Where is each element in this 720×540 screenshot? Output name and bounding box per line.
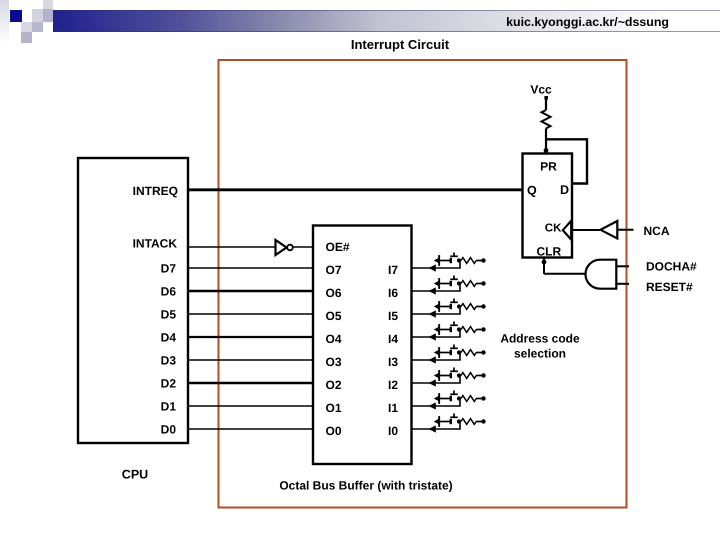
svg-text:O1: O1 xyxy=(326,401,342,415)
wire resistor to terminal row I2 xyxy=(476,375,482,377)
svg-text:CLR: CLR xyxy=(537,245,562,259)
terminal dot row I3 xyxy=(481,350,485,354)
resistor row I3 xyxy=(461,350,476,356)
wire D6 xyxy=(189,290,313,292)
switch S7 contact xyxy=(450,258,452,263)
switch S0 terminal arrow and bar xyxy=(434,418,440,425)
svg-text:O2: O2 xyxy=(326,378,342,392)
svg-text:D: D xyxy=(560,183,569,197)
wire D1 xyxy=(189,405,313,407)
switch S5 terminal arrow and bar xyxy=(434,303,440,310)
dark navy square xyxy=(10,10,22,22)
svg-text:RESET#: RESET# xyxy=(646,280,693,294)
wire CLR to AND gate output xyxy=(544,273,586,275)
junction dot row I7 xyxy=(457,258,461,262)
wire resistor to terminal row I6 xyxy=(476,283,482,285)
resistor row I5 xyxy=(461,304,476,310)
resistor row I1 xyxy=(461,396,476,402)
switch S3 button xyxy=(450,347,458,349)
switch S6 pole wire xyxy=(440,283,450,285)
svg-text:O3: O3 xyxy=(326,355,342,369)
junction dot row I2 xyxy=(457,373,461,377)
resistor row I2 xyxy=(461,373,476,379)
wire resistor to PR pin xyxy=(545,128,547,154)
switch S7 button xyxy=(450,255,458,257)
wire buffer input I0 xyxy=(412,422,460,430)
junction dot row I6 xyxy=(457,281,461,285)
svg-text:DOCHA#: DOCHA# xyxy=(646,260,697,274)
terminal dot row I7 xyxy=(481,258,485,262)
svg-text:INTREQ: INTREQ xyxy=(133,184,178,198)
svg-text:I6: I6 xyxy=(388,286,398,300)
svg-text:D5: D5 xyxy=(161,307,177,321)
switch S1 terminal arrow and bar xyxy=(434,395,440,402)
header url text xyxy=(0,15,669,29)
switch S2 terminal arrow and bar xyxy=(434,372,440,379)
junction dot row I3 xyxy=(457,350,461,354)
svg-text:NCA: NCA xyxy=(644,224,670,238)
terminal dot row I4 xyxy=(481,327,485,331)
medium square mid row xyxy=(32,22,43,32)
switch S1 button xyxy=(450,393,458,395)
switch S1 pole wire xyxy=(440,398,450,400)
switch S2 pole wire xyxy=(440,375,450,377)
junction dot at CLR xyxy=(542,260,547,265)
junction dot row I0 xyxy=(457,419,461,423)
switch S3 terminal arrow and bar xyxy=(434,349,440,356)
switch S4 pole wire xyxy=(440,329,450,331)
svg-text:I2: I2 xyxy=(388,378,398,392)
junction dot row I5 xyxy=(457,304,461,308)
header decorative mosaic and gradient bar xyxy=(0,0,720,50)
wire resistor to terminal row I5 xyxy=(476,306,482,308)
svg-text:D7: D7 xyxy=(161,261,177,275)
wire resistor to terminal row I3 xyxy=(476,352,482,354)
svg-text:D6: D6 xyxy=(161,284,177,298)
switch S3 contact xyxy=(450,350,452,355)
wire buffer input I7 xyxy=(412,261,460,269)
clock input wedge xyxy=(563,221,571,240)
svg-text:D4: D4 xyxy=(161,330,177,344)
wire D0 xyxy=(189,428,313,430)
wire INTREQ (CPU to flip-flop Q) xyxy=(189,188,522,191)
flip-flop U1 box xyxy=(523,154,573,258)
wire buffer input I5 xyxy=(412,307,460,315)
switch S0 contact xyxy=(450,419,452,424)
inverter U4 (NCA buffer, points left) xyxy=(601,221,618,239)
wire D2 xyxy=(189,382,313,384)
svg-text:OE#: OE# xyxy=(326,240,350,254)
light square upper xyxy=(32,9,43,22)
wire resistor to terminal row I0 xyxy=(476,421,482,423)
arrowhead on I1 wire xyxy=(429,402,436,409)
resistor row I7 xyxy=(461,258,476,264)
CPU box xyxy=(78,158,188,443)
svg-text:D3: D3 xyxy=(161,353,177,367)
medium square upper xyxy=(43,9,53,22)
switch S4 contact xyxy=(450,327,452,332)
arrowhead on I4 wire xyxy=(429,333,436,340)
resistor row I4 xyxy=(461,327,476,333)
Vcc terminal dot xyxy=(544,96,548,100)
inverter U2 on INTACK xyxy=(276,240,287,255)
switch S3 pole wire xyxy=(440,352,450,354)
wire D7 xyxy=(189,267,313,269)
switch S1 contact xyxy=(450,396,452,401)
arrowhead on I0 wire xyxy=(429,425,436,432)
switch S4 button xyxy=(450,324,458,326)
wire CK to inverter U4 xyxy=(572,229,601,231)
switch S7 pole wire xyxy=(440,260,450,262)
switch S5 pole wire xyxy=(440,306,450,308)
wire inverter output to buffer OE# xyxy=(293,246,313,248)
wire INTACK (CPU to inverter) xyxy=(189,246,275,248)
arrowhead on I7 wire xyxy=(429,264,436,271)
svg-text:I7: I7 xyxy=(388,263,398,277)
wire resistor to terminal row I1 xyxy=(476,398,482,400)
svg-text:I0: I0 xyxy=(388,424,398,438)
resistor row I0 xyxy=(461,419,476,425)
switch S2 button xyxy=(450,370,458,372)
wire AND input RESET# xyxy=(616,283,629,285)
svg-text:PR: PR xyxy=(540,160,557,174)
svg-text:CPU: CPU xyxy=(122,468,148,482)
AND gate U5 (mirrored, inputs at right) xyxy=(586,260,617,289)
octal bus buffer box U3 xyxy=(313,226,412,465)
switch S6 button xyxy=(450,278,458,280)
switch S4 terminal arrow and bar xyxy=(434,326,440,333)
svg-text:I5: I5 xyxy=(388,309,398,323)
wire D5 xyxy=(189,313,313,315)
terminal dot row I1 xyxy=(481,396,485,400)
svg-text:INTACK: INTACK xyxy=(133,237,178,251)
svg-text:selection: selection xyxy=(514,347,566,361)
switch S7 terminal arrow and bar xyxy=(434,257,440,264)
switch S5 button xyxy=(450,301,458,303)
pale band above medium square xyxy=(43,0,53,9)
light square mid row xyxy=(21,22,32,32)
svg-text:I3: I3 xyxy=(388,355,398,369)
wire buffer input I1 xyxy=(412,399,460,407)
svg-text:Address code: Address code xyxy=(500,332,580,346)
terminal dot row I0 xyxy=(481,419,485,423)
svg-text:D0: D0 xyxy=(161,422,177,436)
switch S5 contact xyxy=(450,304,452,309)
svg-text:O0: O0 xyxy=(326,424,342,438)
svg-text:Vcc: Vcc xyxy=(530,83,552,97)
terminal dot row I6 xyxy=(481,281,485,285)
terminal dot row I2 xyxy=(481,373,485,377)
wire buffer input I3 xyxy=(412,353,460,361)
wire buffer input I4 xyxy=(412,330,460,338)
wire inverter to NCA xyxy=(617,229,633,231)
svg-text:I1: I1 xyxy=(388,401,398,415)
svg-text:Octal Bus Buffer (with tristat: Octal Bus Buffer (with tristate) xyxy=(279,479,452,493)
lavender square lower xyxy=(21,32,32,43)
wire CLR stub xyxy=(543,258,545,275)
switch S6 contact xyxy=(450,281,452,286)
junction dot at PR pin xyxy=(544,148,549,153)
switch S6 terminal arrow and bar xyxy=(434,280,440,287)
svg-text:O7: O7 xyxy=(326,263,342,277)
arrowhead on I6 wire xyxy=(429,287,436,294)
slide title xyxy=(250,37,550,52)
svg-text:CK: CK xyxy=(545,223,562,235)
svg-text:O5: O5 xyxy=(326,309,342,323)
wire resistor to terminal row I7 xyxy=(476,260,482,262)
wire D3 xyxy=(189,359,313,361)
gradient title bar xyxy=(53,10,720,32)
left gradient strip xyxy=(0,0,9,44)
arrowhead on I2 wire xyxy=(429,379,436,386)
resistor row I6 xyxy=(461,281,476,287)
svg-text:O6: O6 xyxy=(326,286,342,300)
switch S0 pole wire xyxy=(440,421,450,423)
junction dot row I1 xyxy=(457,396,461,400)
wire buffer input I2 xyxy=(412,376,460,384)
svg-text:Q: Q xyxy=(527,183,537,197)
svg-text:D1: D1 xyxy=(161,399,177,413)
wire resistor to terminal row I4 xyxy=(476,329,482,331)
resistor R1 (pull-up) xyxy=(542,110,551,128)
svg-text:D2: D2 xyxy=(161,376,177,390)
junction dot row I4 xyxy=(457,327,461,331)
wire feedback loop top xyxy=(546,139,587,183)
svg-text:O4: O4 xyxy=(326,332,342,346)
wire AND input DOCHA# xyxy=(616,265,629,267)
wire D4 xyxy=(189,336,313,338)
wire buffer input I6 xyxy=(412,284,460,292)
arrowhead on I3 wire xyxy=(429,356,436,363)
terminal dot row I5 xyxy=(481,304,485,308)
switch S0 button xyxy=(450,416,458,418)
arrowhead on I5 wire xyxy=(429,310,436,317)
wire Vcc to resistor R1 xyxy=(545,98,547,110)
switch S2 contact xyxy=(450,373,452,378)
interrupt circuit boundary (orange rectangle) xyxy=(219,60,627,508)
svg-text:I4: I4 xyxy=(388,332,398,346)
